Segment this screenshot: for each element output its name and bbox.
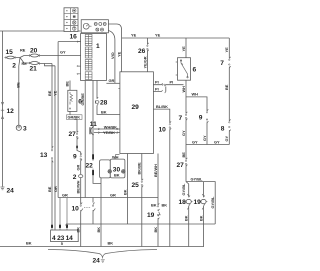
box 1 pin connector column [85, 35, 92, 80]
svg-text:2: 2 [12, 63, 16, 70]
svg-text:BE: BE [47, 90, 52, 96]
instrument cluster box [81, 20, 108, 33]
svg-text:GR: GR [109, 78, 115, 83]
svg-text:RE: RE [20, 47, 26, 52]
wire from 6 down through connector 27 [74, 119, 77, 145]
turn lamp 19 [194, 182, 208, 247]
svg-text:28: 28 [100, 100, 108, 107]
wire from box1 through connector 28 [97, 81, 120, 115]
svg-text:BE: BE [47, 186, 52, 192]
fuse 20 [24, 48, 81, 58]
GR bus horizontal [58, 197, 158, 199]
svg-text:10: 10 [72, 206, 80, 213]
right edge YE wire [228, 38, 230, 145]
svg-text:3: 3 [23, 126, 27, 133]
svg-text:BK: BK [108, 241, 114, 246]
connector 13 [40, 146, 53, 162]
starter wire down from fork [18, 66, 20, 125]
svg-text:BK: BK [151, 203, 157, 208]
svg-text:BE: BE [65, 81, 70, 87]
YE bus horizontal [122, 37, 230, 39]
wire top-left horizontal [0, 30, 81, 32]
svg-text:22: 22 [86, 163, 94, 170]
connector 25 [132, 179, 144, 189]
svg-text:YE: YE [117, 51, 122, 57]
connector 7 mid [179, 112, 188, 122]
main switch box 1 [81, 34, 107, 81]
svg-text:GR/BE: GR/BE [80, 93, 85, 106]
svg-text:GY: GY [192, 139, 198, 144]
svg-text:GY: GY [224, 135, 229, 141]
wire label BE/WH vertical [80, 178, 82, 205]
svg-text:20: 20 [30, 48, 38, 55]
fork node 2 [12, 56, 24, 70]
svg-text:YE: YE [224, 47, 229, 53]
svg-text:BE: BE [16, 82, 21, 88]
svg-text:7: 7 [220, 60, 224, 67]
fuse 15 [5, 49, 21, 59]
horn 11 [90, 121, 120, 135]
svg-text:8: 8 [221, 126, 225, 133]
svg-text:BK: BK [96, 227, 101, 233]
svg-text:7: 7 [179, 115, 183, 122]
svg-text:GY: GY [181, 130, 186, 136]
bottom ground bus [0, 246, 204, 248]
connector 27 right [177, 158, 188, 169]
wire vertical from fuse 21 to connector 13 [51, 64, 53, 149]
GY bus horizontal [186, 144, 229, 146]
starter relay 8 [176, 58, 197, 80]
svg-text:BK: BK [101, 110, 107, 115]
svg-text:WH: WH [192, 92, 199, 97]
svg-text:16: 16 [70, 34, 78, 41]
svg-text:GY: GY [202, 135, 207, 141]
switch 10 handlebar [72, 203, 96, 213]
svg-text:27: 27 [177, 162, 185, 169]
svg-text:GR/BK: GR/BK [68, 114, 81, 119]
svg-text:6: 6 [193, 67, 197, 74]
bullet junction [76, 146, 81, 156]
svg-text:BL/BK: BL/BK [156, 104, 168, 109]
wire below GY bus [185, 145, 187, 182]
svg-text:WH/BK: WH/BK [104, 125, 117, 130]
svg-text:YE: YE [181, 46, 186, 52]
connector 10 right [159, 121, 172, 133]
svg-text:GR: GR [62, 192, 68, 197]
connector 8 right [221, 119, 231, 132]
svg-text:BK: BK [114, 173, 120, 178]
CDI wire BL/BK [153, 109, 169, 123]
CDI right pin PI wires [153, 83, 183, 93]
svg-text:BE: BE [224, 84, 229, 90]
svg-text:25: 25 [132, 182, 140, 189]
CDI bottom wire BK [127, 154, 129, 225]
turn lamp 18 [179, 182, 193, 247]
svg-text:BK: BK [184, 215, 189, 221]
wire vertical second [54, 66, 56, 230]
svg-text:9: 9 [73, 154, 77, 161]
bullet connectors above block 4/23/14 [51, 198, 68, 231]
svg-text:9: 9 [199, 115, 203, 122]
svg-text:12: 12 [7, 108, 15, 115]
ground 24 left [1, 187, 15, 195]
svg-text:1: 1 [96, 43, 100, 50]
svg-text:24: 24 [7, 188, 15, 195]
svg-text:YE: YE [155, 33, 161, 38]
connector block 4 23 14 [51, 230, 79, 246]
svg-text:GY/BL: GY/BL [191, 176, 204, 181]
wire label GR/BK boxed [67, 111, 83, 119]
svg-text:BK: BK [153, 227, 158, 233]
svg-text:GY/BL: GY/BL [181, 183, 186, 196]
wire YE drop to relay 8 [185, 38, 187, 58]
connector 7 right [220, 57, 230, 68]
ground brace 24 [48, 250, 157, 265]
bus mid horizontal [66, 223, 215, 225]
svg-text:GR: GR [110, 192, 116, 197]
wire GY down to bus [185, 121, 187, 145]
connector 9 left [73, 153, 82, 161]
svg-text:BK: BK [76, 227, 81, 233]
CDI unit 29 [118, 72, 153, 154]
GY/BL branch [186, 182, 215, 224]
wire WH branch [186, 97, 207, 111]
ignition switch legend table [64, 8, 78, 32]
svg-text:15: 15 [6, 49, 14, 56]
svg-text:BE: BE [181, 152, 186, 158]
YE bus feed from cluster [108, 24, 121, 72]
svg-text:24: 24 [93, 258, 101, 265]
svg-text:OR: OR [53, 186, 58, 192]
wire continues below 13 to bullet [51, 161, 53, 225]
svg-text:18: 18 [179, 199, 187, 206]
bullet connector 2 [73, 174, 83, 181]
wire GR box1 to CDI [106, 82, 120, 84]
flasher unit 30 [100, 154, 126, 246]
svg-text:BE/WH: BE/WH [153, 164, 158, 177]
box 1 left pin stubs [78, 42, 80, 74]
CDI bottom wire BK/BE with connector 25 [141, 154, 143, 247]
svg-text:13: 13 [40, 152, 48, 159]
fuse 21 [24, 62, 55, 73]
battery feed wire left [1, 31, 4, 187]
svg-text:29: 29 [132, 104, 140, 111]
svg-text:YE: YE [131, 33, 137, 38]
svg-text:26: 26 [138, 48, 146, 55]
svg-text:BK: BK [26, 241, 32, 246]
svg-text:YE/GR: YE/GR [142, 56, 147, 68]
svg-text:27: 27 [69, 131, 77, 138]
svg-text:BK: BK [198, 215, 203, 221]
svg-text:2: 2 [73, 174, 77, 181]
svg-text:GR: GR [76, 164, 81, 170]
svg-text:GY: GY [60, 50, 66, 55]
brake switch 19 [147, 154, 167, 247]
svg-text:YE: YE [52, 90, 57, 96]
svg-text:BK/BE: BK/BE [137, 162, 142, 175]
wire GR/BE from box1 [84, 81, 86, 198]
connector 28 [95, 97, 107, 106]
wire WH from relay [185, 80, 187, 113]
regulator box 6 [68, 81, 82, 112]
wire VIO from cluster [108, 31, 115, 84]
svg-text:19: 19 [194, 199, 202, 206]
svg-text:WH: WH [181, 86, 186, 93]
svg-text:19: 19 [147, 212, 155, 219]
svg-text:21: 21 [30, 66, 38, 73]
svg-text:10: 10 [159, 127, 167, 134]
svg-text:GY/BL: GY/BL [210, 196, 215, 209]
svg-text:PI: PI [155, 79, 159, 84]
wire loop from box1 pin to GY line [58, 42, 81, 198]
svg-text:VIO: VIO [110, 52, 115, 59]
svg-text:BK: BK [162, 203, 168, 208]
svg-text:BK: BK [122, 189, 127, 195]
svg-text:YE/BK: YE/BK [103, 130, 115, 135]
svg-text:PI: PI [170, 79, 174, 84]
wire GY down to bus right [206, 123, 208, 145]
connector 27 left [69, 131, 79, 140]
starter motor 3 [16, 125, 27, 132]
svg-text:BE/WH: BE/WH [76, 180, 81, 193]
connector 26 [138, 38, 149, 72]
connector 9 mid [199, 109, 209, 123]
svg-text:PI: PI [155, 86, 159, 91]
svg-text:GY: GY [214, 139, 220, 144]
capacitor 22 connectors [86, 81, 102, 184]
